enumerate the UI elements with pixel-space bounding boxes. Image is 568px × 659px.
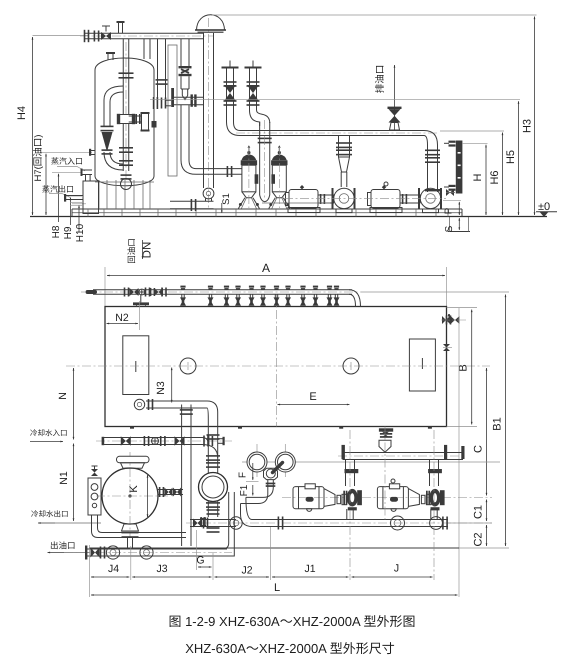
svg-text:B1: B1 xyxy=(492,417,504,430)
svg-text:N1: N1 xyxy=(58,471,70,485)
svg-text:冷却水出口: 冷却水出口 xyxy=(31,510,69,519)
svg-text:N: N xyxy=(57,392,69,400)
svg-text:A: A xyxy=(262,261,270,275)
svg-text:J2: J2 xyxy=(241,565,252,577)
svg-text:H6: H6 xyxy=(489,170,501,184)
svg-text:F: F xyxy=(237,472,248,478)
svg-text:DN: DN xyxy=(142,242,154,259)
svg-text:S: S xyxy=(444,225,455,232)
svg-text:K: K xyxy=(128,485,140,493)
svg-text:冷却水入口: 冷却水入口 xyxy=(30,429,68,438)
svg-text:H10: H10 xyxy=(75,223,86,242)
svg-text:G: G xyxy=(196,555,204,567)
svg-text:J: J xyxy=(394,563,399,575)
svg-text:J4: J4 xyxy=(108,563,119,575)
svg-text:P: P xyxy=(444,207,455,214)
svg-text:出油口: 出油口 xyxy=(50,541,76,551)
svg-text:C: C xyxy=(473,445,485,453)
svg-text:H7(回油口): H7(回油口) xyxy=(33,135,44,182)
svg-text:H8: H8 xyxy=(51,225,62,238)
svg-text:B: B xyxy=(458,364,470,371)
svg-text:H: H xyxy=(472,173,484,181)
svg-text:H5: H5 xyxy=(505,150,517,164)
svg-text:L: L xyxy=(274,582,280,594)
svg-text:F1: F1 xyxy=(239,484,250,496)
svg-text:蒸汽出口: 蒸汽出口 xyxy=(42,185,74,194)
svg-text:图 1-2-9 XHZ-630A～XHZ-2000A 型: 图 1-2-9 XHZ-630A～XHZ-2000A 型外形图 xyxy=(168,614,415,629)
svg-text:N3: N3 xyxy=(155,381,167,395)
svg-text:排油口: 排油口 xyxy=(375,65,386,94)
svg-text:XHZ-630A～XHZ-2000A 型外形尺寸: XHZ-630A～XHZ-2000A 型外形尺寸 xyxy=(185,641,395,656)
svg-text:J1: J1 xyxy=(304,563,315,575)
svg-text:C1: C1 xyxy=(473,505,485,519)
svg-text:蒸汽入口: 蒸汽入口 xyxy=(51,157,83,166)
svg-text:E: E xyxy=(309,391,316,403)
svg-text:C2: C2 xyxy=(473,532,485,546)
svg-text:H4: H4 xyxy=(16,106,28,120)
svg-text:N2: N2 xyxy=(115,312,129,324)
svg-text:回油口: 回油口 xyxy=(127,238,137,264)
svg-text:J3: J3 xyxy=(156,563,167,575)
svg-text:H3: H3 xyxy=(522,119,534,133)
svg-text:S1: S1 xyxy=(221,193,232,205)
svg-text:H9: H9 xyxy=(63,226,74,239)
